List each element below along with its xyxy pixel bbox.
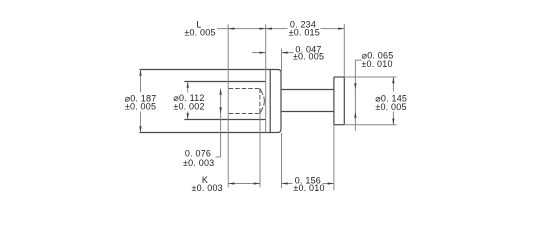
svg-text:±0. 005: ±0. 005 (293, 52, 324, 62)
svg-text:±0. 002: ±0. 002 (173, 101, 204, 111)
svg-text:±0. 010: ±0. 010 (361, 59, 392, 69)
svg-text:±0. 003: ±0. 003 (183, 158, 214, 168)
svg-text:±0. 005: ±0. 005 (184, 28, 215, 38)
svg-text:±0. 003: ±0. 003 (192, 183, 223, 193)
svg-text:±0. 010: ±0. 010 (293, 183, 324, 193)
svg-text:±0. 005: ±0. 005 (125, 102, 156, 112)
svg-text:±0. 005: ±0. 005 (375, 102, 406, 112)
svg-text:±0. 015: ±0. 015 (289, 28, 320, 38)
